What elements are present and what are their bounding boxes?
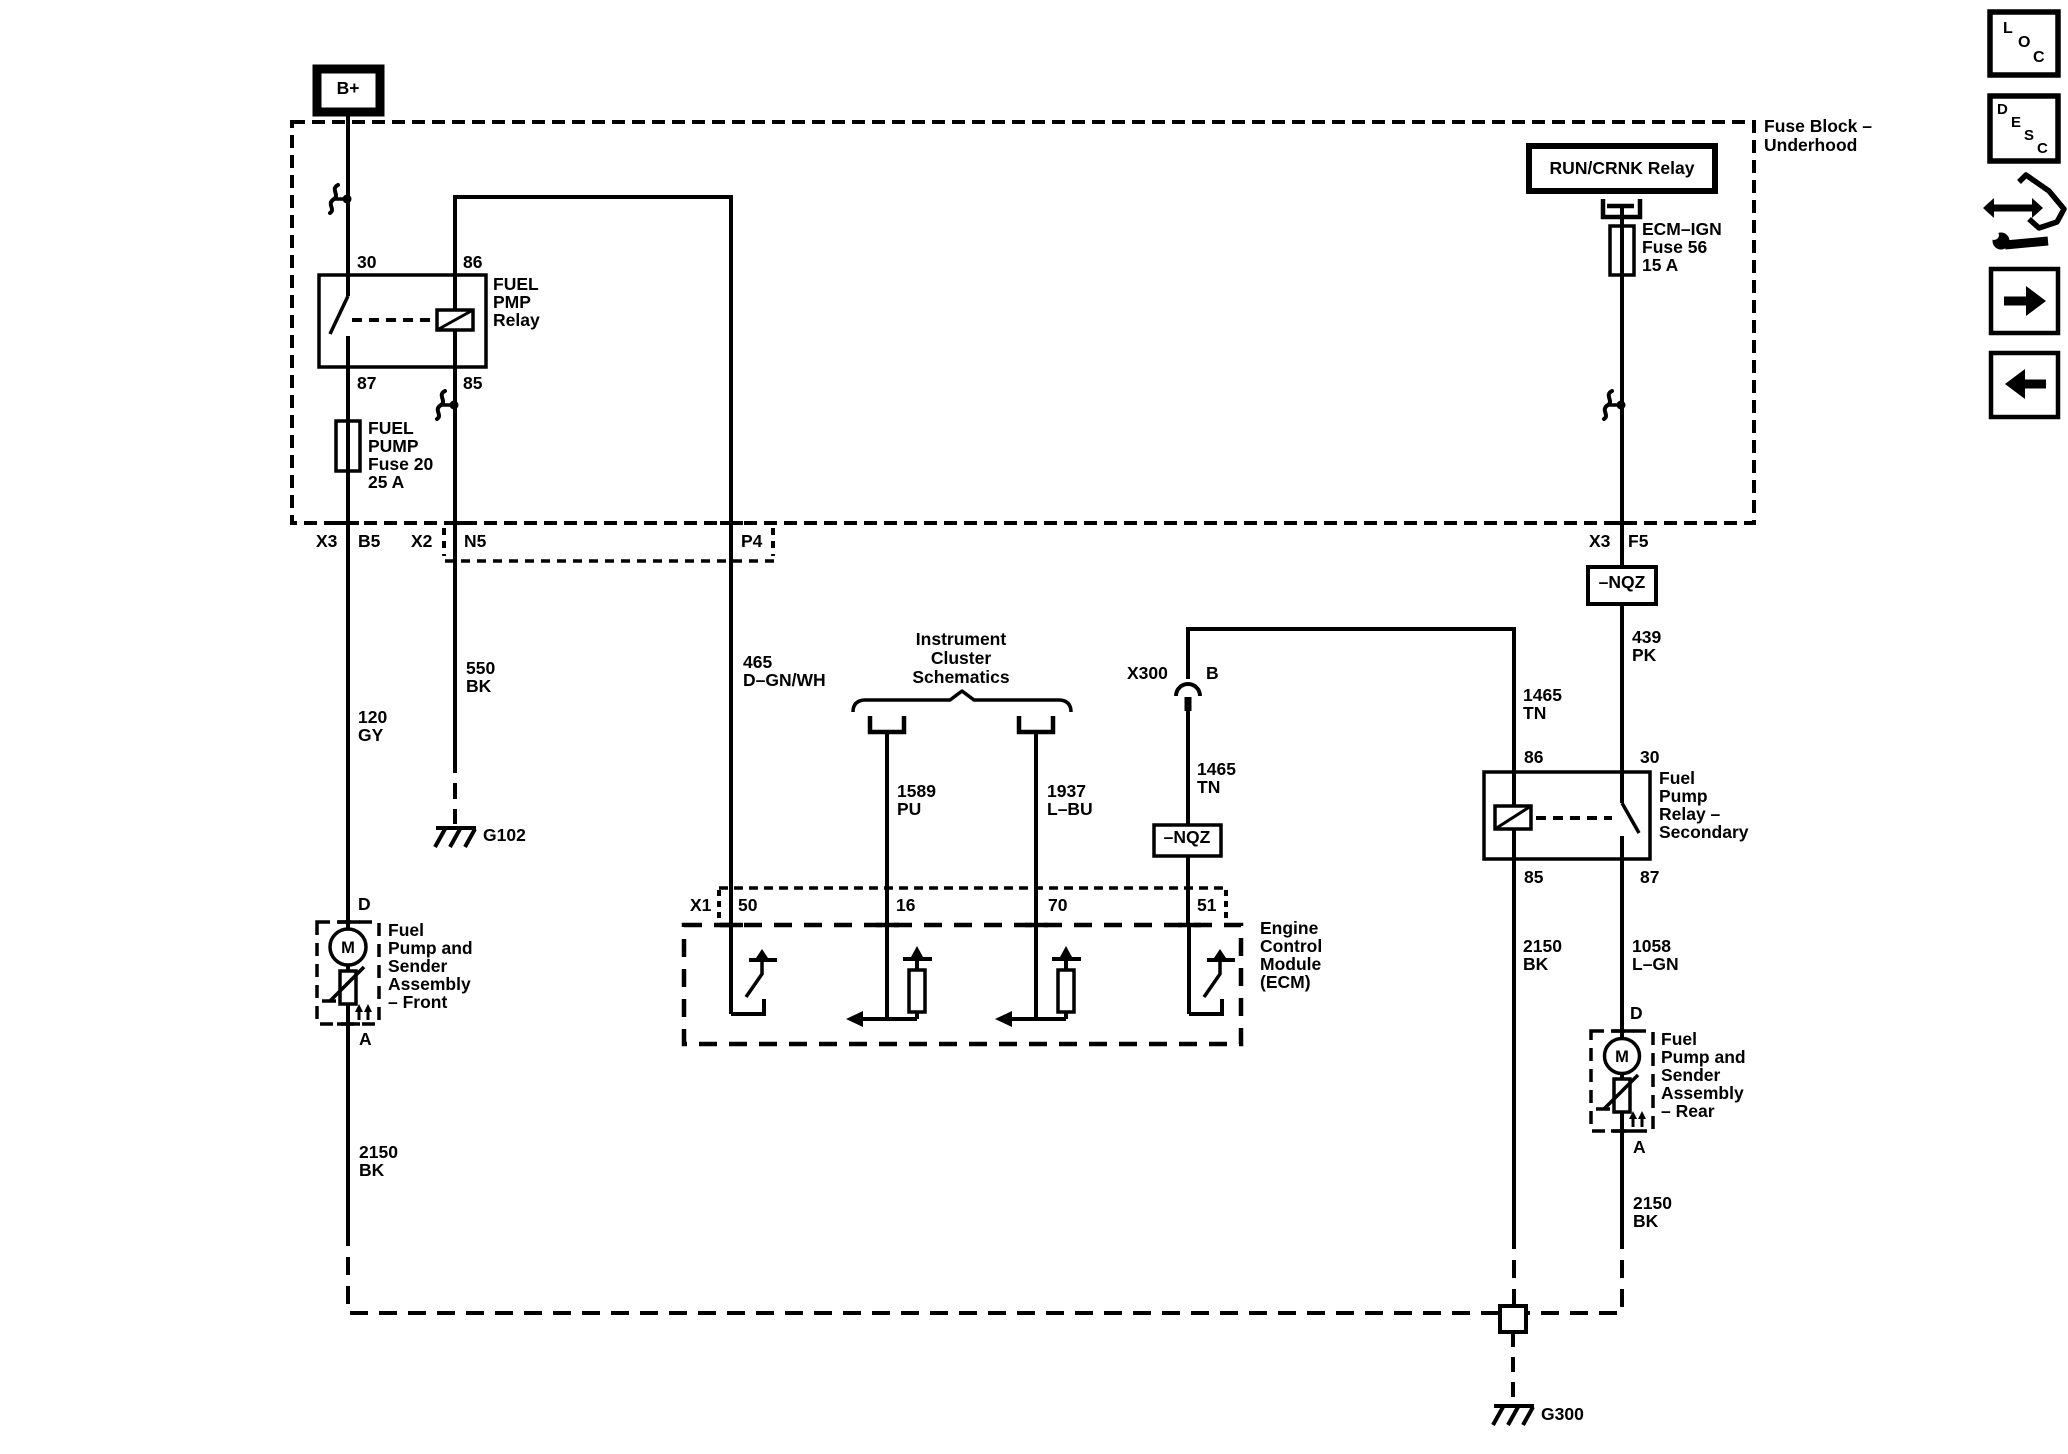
dashed wire to ground G102 — [453, 757, 457, 824]
connector X1 separators — [719, 890, 1226, 921]
svg-text:O: O — [2018, 34, 2030, 51]
connector X1 label — [690, 895, 712, 915]
wire 1058 L-GN relay2 pin 87 — [1622, 859, 1679, 1031]
svg-text:PUMP: PUMP — [368, 436, 419, 456]
svg-text:120: 120 — [358, 707, 387, 727]
svg-text:Instrument: Instrument — [916, 629, 1007, 649]
svg-text:B: B — [1206, 663, 1219, 683]
svg-text:Fuse Block –: Fuse Block – — [1764, 116, 1872, 136]
ground G102 — [435, 825, 526, 847]
svg-text:L: L — [2003, 20, 2013, 37]
svg-text:Fuse 56: Fuse 56 — [1642, 237, 1707, 257]
svg-text:86: 86 — [1524, 747, 1544, 767]
relay pin labels 30 86 — [357, 252, 483, 272]
svg-text:D: D — [1997, 101, 2008, 118]
pin label A (front) — [359, 1029, 372, 1049]
svg-text:1465: 1465 — [1523, 685, 1562, 705]
svg-text:E: E — [2011, 114, 2021, 131]
label ECM-IGN Fuse 56 15 A — [1642, 219, 1722, 275]
sender resistor rear — [1596, 1073, 1638, 1131]
svg-text:PK: PK — [1632, 645, 1657, 665]
svg-text:1058: 1058 — [1632, 936, 1671, 956]
svg-text:439: 439 — [1632, 627, 1661, 647]
splice clip on 550 BK wire — [437, 391, 459, 419]
ECM resistor pin 16 — [846, 925, 932, 1027]
relay pin labels 87 85 — [357, 373, 483, 393]
svg-text:50: 50 — [738, 895, 758, 915]
svg-text:– Front: – Front — [388, 992, 447, 1012]
fuse block - underhood dashed outline — [292, 122, 1754, 523]
label Fuel Pump Relay - Secondary — [1659, 768, 1749, 842]
svg-text:Relay –: Relay – — [1659, 804, 1721, 824]
label FUEL PMP Relay — [493, 274, 540, 330]
wire label 1465 TN (relay2) — [1523, 685, 1562, 723]
connector labels X3 F5 — [1589, 531, 1649, 551]
relay1 switch contact — [330, 275, 348, 367]
connector cup wire 1589 — [870, 716, 904, 732]
svg-text:X3: X3 — [316, 531, 338, 551]
connector cup below RUN/CRNK relay — [1603, 199, 1640, 217]
connector X300 labels — [1127, 663, 1219, 683]
svg-text:FUEL: FUEL — [493, 274, 539, 294]
icon back arrow box — [1991, 353, 2058, 417]
svg-text:X3: X3 — [1589, 531, 1611, 551]
ECM pin labels 50 16 70 51 — [738, 895, 1217, 915]
svg-text:2150: 2150 — [359, 1142, 398, 1162]
svg-text:550: 550 — [466, 658, 495, 678]
svg-text:P4: P4 — [741, 531, 763, 551]
dashed wire to junction S-box — [1512, 1231, 1516, 1306]
label Fuel Pump and Sender Assembly - Rear — [1661, 1029, 1746, 1121]
relay2 dashed actuator link — [1536, 816, 1612, 820]
svg-text:Assembly: Assembly — [1661, 1083, 1744, 1103]
svg-text:C: C — [2033, 49, 2045, 66]
svg-text:BK: BK — [1633, 1211, 1659, 1231]
svg-text:1465: 1465 — [1197, 759, 1236, 779]
connector X2 dotted separators — [444, 528, 773, 556]
svg-text:L–BU: L–BU — [1047, 799, 1093, 819]
svg-text:–NQZ: –NQZ — [1164, 827, 1211, 847]
connector cup wire 1937 — [1019, 716, 1053, 732]
wire 1465 TN to -NQZ — [1188, 711, 1236, 825]
svg-text:1937: 1937 — [1047, 781, 1086, 801]
svg-text:Fuse 20: Fuse 20 — [368, 454, 433, 474]
sender arrows front — [355, 1004, 372, 1020]
wire label 120 GY — [358, 707, 387, 745]
relay2 pin labels 85 87 — [1524, 867, 1659, 887]
wire label 465 D-GN/WH — [743, 652, 826, 690]
svg-text:51: 51 — [1197, 895, 1217, 915]
relay2 coil — [1495, 772, 1531, 859]
svg-text:30: 30 — [357, 252, 377, 272]
net label -NQZ (center) — [1154, 825, 1221, 856]
svg-text:F5: F5 — [1628, 531, 1649, 551]
relay1 coil — [437, 275, 473, 367]
pin label A (rear) — [1633, 1137, 1646, 1157]
fuse FUEL PUMP Fuse 20 25A — [336, 421, 360, 471]
wire ECM-IGN fuse to -NQZ — [1620, 226, 1624, 567]
fuel pump and sender assembly rear box — [1591, 1031, 1653, 1131]
wire 1937 L-BU to ECM pin 70 — [1036, 732, 1093, 925]
relay FUEL PMP Relay box — [319, 275, 486, 367]
svg-text:B+: B+ — [337, 78, 360, 98]
svg-text:A: A — [1633, 1137, 1646, 1157]
svg-text:15 A: 15 A — [1642, 255, 1679, 275]
pin label D (front) — [358, 894, 371, 914]
svg-text:465: 465 — [743, 652, 772, 672]
svg-text:– Rear: – Rear — [1661, 1101, 1715, 1121]
wire 2150 BK front pump pin A — [348, 1024, 398, 1228]
wire 2150 BK rear pump pin A — [1622, 1131, 1672, 1231]
net label -NQZ (right) — [1588, 567, 1656, 604]
ECM dashed box — [684, 925, 1241, 1044]
svg-text:G300: G300 — [1541, 1404, 1584, 1424]
svg-text:Relay: Relay — [493, 310, 540, 330]
relay1 dashed actuator link — [352, 318, 437, 322]
motor M rear — [1605, 1031, 1640, 1074]
svg-text:S: S — [2024, 127, 2034, 144]
wire X300 riser to relay2 pin 86 — [1188, 629, 1514, 772]
wire B+ to FUEL PMP relay pin 30 — [346, 112, 350, 275]
icon wrench with arrows — [1983, 175, 2064, 250]
svg-text:GY: GY — [358, 725, 384, 745]
svg-text:BK: BK — [359, 1160, 385, 1180]
power feed B+ box — [317, 69, 380, 112]
wire relay1 pin 86 to node P4 riser — [455, 197, 731, 925]
svg-text:85: 85 — [463, 373, 483, 393]
wire 1589 PU to ECM pin 16 — [887, 732, 936, 925]
ground G300 — [1493, 1404, 1584, 1425]
svg-text:C: C — [2037, 140, 2048, 157]
svg-text:PMP: PMP — [493, 292, 531, 312]
svg-text:(ECM): (ECM) — [1260, 972, 1311, 992]
svg-text:Underhood: Underhood — [1764, 135, 1857, 155]
svg-text:Cluster: Cluster — [931, 648, 991, 668]
label Fuel Pump and Sender Assembly - Front — [388, 920, 473, 1012]
wire relay1 pin 87 to fuel pump front — [346, 367, 350, 922]
splice clip on B+ wire — [330, 185, 352, 213]
relay box RUN/CRNK Relay — [1529, 146, 1715, 191]
label FUEL PUMP Fuse 20 25 A — [368, 418, 433, 492]
wire RUN/CRNK relay to ECM-IGN fuse — [1620, 206, 1624, 226]
svg-text:87: 87 — [1640, 867, 1659, 887]
svg-text:70: 70 — [1048, 895, 1068, 915]
icon LOC box — [1990, 12, 2058, 75]
svg-text:Control: Control — [1260, 936, 1322, 956]
svg-text:M: M — [1615, 1048, 1629, 1066]
svg-text:FUEL: FUEL — [368, 418, 414, 438]
svg-text:BK: BK — [1523, 954, 1549, 974]
svg-text:Secondary: Secondary — [1659, 822, 1749, 842]
dash ticks at fuse block bottom crossings — [336, 521, 1634, 525]
svg-text:D: D — [358, 894, 371, 914]
relay2 switch contact — [1622, 772, 1639, 859]
svg-text:X300: X300 — [1127, 663, 1168, 683]
ECM resistor pin 70 — [995, 925, 1081, 1027]
svg-text:TN: TN — [1197, 777, 1220, 797]
svg-text:PU: PU — [897, 799, 921, 819]
wire 550 BK relay1 pin 85 to G102 — [455, 367, 495, 757]
svg-text:85: 85 — [1524, 867, 1544, 887]
ECM driver switch pin 50 — [731, 925, 777, 1014]
svg-text:BK: BK — [466, 676, 492, 696]
svg-text:87: 87 — [357, 373, 376, 393]
svg-text:Pump and: Pump and — [1661, 1047, 1746, 1067]
svg-text:Fuel: Fuel — [388, 920, 424, 940]
junction splice box — [1500, 1306, 1526, 1332]
svg-text:16: 16 — [896, 895, 916, 915]
fuse ECM-IGN Fuse 56 15A — [1610, 226, 1634, 275]
svg-text:1589: 1589 — [897, 781, 936, 801]
connector X300 arc and pin — [1176, 684, 1200, 711]
svg-text:30: 30 — [1640, 747, 1660, 767]
svg-text:D: D — [1630, 1003, 1643, 1023]
label Fuse Block - Underhood — [1764, 116, 1872, 155]
svg-text:25 A: 25 A — [368, 472, 405, 492]
svg-text:Sender: Sender — [1661, 1065, 1721, 1085]
svg-text:2150: 2150 — [1523, 936, 1562, 956]
svg-text:Schematics: Schematics — [912, 667, 1010, 687]
svg-text:–NQZ: –NQZ — [1599, 572, 1646, 592]
svg-text:G102: G102 — [483, 825, 526, 845]
label Instrument Cluster Schematics — [912, 629, 1010, 687]
label Engine Control Module (ECM) — [1260, 918, 1322, 992]
wire 439 PK to relay pin 30 — [1622, 604, 1661, 772]
motor M front — [330, 922, 366, 965]
svg-text:L–GN: L–GN — [1632, 954, 1679, 974]
wire -NQZ to ECM pin 51 — [1186, 856, 1190, 925]
svg-text:Fuel: Fuel — [1661, 1029, 1697, 1049]
brace instrument cluster — [853, 691, 1071, 712]
svg-text:N5: N5 — [464, 531, 487, 551]
svg-text:86: 86 — [463, 252, 483, 272]
svg-text:Sender: Sender — [388, 956, 448, 976]
svg-text:M: M — [341, 939, 355, 957]
svg-text:D–GN/WH: D–GN/WH — [743, 670, 826, 690]
sender arrows rear — [1629, 1111, 1646, 1127]
dashed wire junction to G300 — [1511, 1332, 1515, 1402]
dashed wire rear pump to junction — [1528, 1231, 1622, 1313]
wire 2150 BK relay2 pin 85 — [1514, 859, 1562, 1231]
icon forward arrow box — [1991, 269, 2058, 333]
svg-text:Pump and: Pump and — [388, 938, 473, 958]
svg-text:Module: Module — [1260, 954, 1322, 974]
ECM driver switch pin 51 — [1189, 925, 1235, 1014]
svg-text:2150: 2150 — [1633, 1193, 1672, 1213]
svg-text:Fuel: Fuel — [1659, 768, 1695, 788]
svg-text:A: A — [359, 1029, 372, 1049]
icon DESC box — [1990, 96, 2058, 161]
svg-text:RUN/CRNK Relay: RUN/CRNK Relay — [1550, 158, 1695, 178]
sender resistor front — [322, 965, 364, 1024]
connector X1 dotted line — [719, 886, 1226, 890]
svg-text:Pump: Pump — [1659, 786, 1708, 806]
connector X2 bottom dotted line — [445, 559, 776, 563]
dashed wire front pump to junction — [348, 1228, 1500, 1313]
svg-text:Assembly: Assembly — [388, 974, 471, 994]
fuel pump and sender assembly front box — [317, 922, 379, 1024]
relay Fuel Pump Relay - Secondary box — [1484, 772, 1650, 859]
svg-text:ECM–IGN: ECM–IGN — [1642, 219, 1722, 239]
svg-text:B5: B5 — [358, 531, 381, 551]
connector labels X3 B5 X2 N5 P4 — [316, 531, 763, 551]
svg-text:TN: TN — [1523, 703, 1546, 723]
svg-text:X1: X1 — [690, 895, 712, 915]
svg-text:Engine: Engine — [1260, 918, 1319, 938]
relay2 pin labels 86 30 — [1524, 747, 1660, 767]
pin label D (rear) — [1630, 1003, 1643, 1023]
dash ticks at ECM box top crossings — [720, 923, 1201, 928]
splice clip on ECM-IGN wire — [1604, 391, 1626, 419]
svg-text:X2: X2 — [411, 531, 433, 551]
